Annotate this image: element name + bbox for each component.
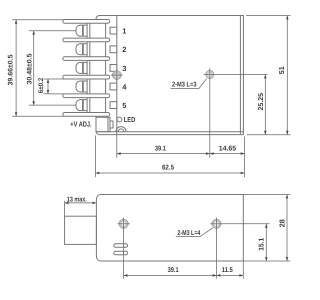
svg-text:30.48±0.5: 30.48±0.5	[26, 53, 33, 84]
svg-text:3: 3	[122, 64, 126, 73]
svg-text:15.1: 15.1	[259, 238, 266, 251]
svg-text:2-M3 L=3: 2-M3 L=3	[172, 82, 197, 89]
svg-text:39.1: 39.1	[155, 145, 166, 152]
svg-text:28: 28	[277, 219, 286, 227]
svg-text:25.25: 25.25	[258, 93, 265, 111]
svg-text:62.5: 62.5	[162, 165, 174, 172]
svg-text:39.66±0.5: 39.66±0.5	[7, 54, 14, 85]
svg-text:2: 2	[122, 45, 126, 54]
svg-text:+V ADJ.: +V ADJ.	[70, 119, 91, 128]
svg-text:11.5: 11.5	[222, 267, 233, 274]
svg-text:1: 1	[122, 27, 126, 36]
svg-text:6±0.2: 6±0.2	[38, 78, 45, 94]
svg-text:2-M3 L=4: 2-M3 L=4	[177, 230, 200, 237]
svg-text:39.1: 39.1	[168, 267, 179, 274]
svg-text:51: 51	[277, 66, 286, 74]
svg-text:5: 5	[122, 101, 126, 110]
svg-text:LED: LED	[124, 115, 136, 124]
svg-text:14.65: 14.65	[219, 145, 237, 152]
